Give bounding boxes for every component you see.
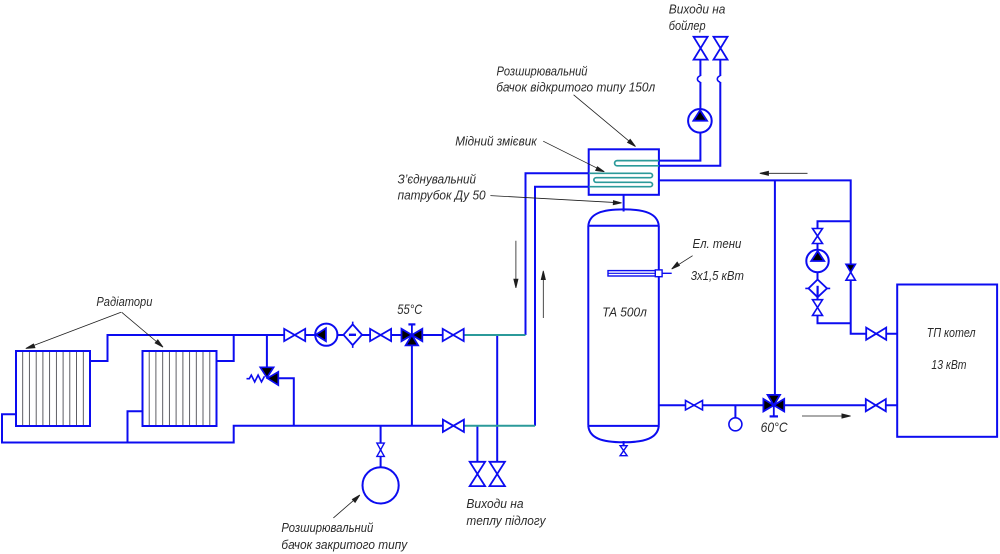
leader Du50: [490, 196, 621, 205]
pump P1: [315, 324, 337, 346]
svg-text:Ел. тени: Ел. тени: [693, 236, 742, 251]
wire teal bottom segment: [464, 425, 535, 427]
valve V1 top pipe left: [284, 329, 305, 341]
wire gauge stem: [734, 405, 736, 418]
leader closed tank: [333, 495, 359, 518]
flow arrow up riser: [541, 271, 545, 318]
svg-text:Мідний змієвик: Мідний змієвик: [455, 133, 537, 148]
svg-text:бачок закритого типу: бачок закритого типу: [281, 537, 408, 552]
wire coil outlet A to boiler output 1: [659, 60, 701, 161]
leader copper coil: [543, 141, 604, 172]
heat accumulator TA 500l: [588, 209, 659, 442]
TA drain valve: [620, 446, 627, 456]
radiator 2: [143, 351, 217, 426]
check valve CV3 on main vertical: [846, 264, 855, 280]
radiator 1: [16, 351, 90, 426]
svg-text:Розширювальний: Розширювальний: [497, 64, 588, 79]
heating element: [608, 270, 672, 277]
svg-text:Радіатори: Радіатори: [96, 294, 152, 309]
closed expansion tank: [363, 467, 399, 503]
valve V2: [370, 329, 391, 341]
wire bypass outlet to bottom pipe: [272, 378, 294, 426]
wire TA outlet to boiler bottom: [659, 404, 898, 406]
svg-text:Розширювальний: Розширювальний: [281, 520, 373, 535]
pipe break symbol 2: [717, 76, 720, 82]
boiler output valve B2: [714, 37, 728, 60]
wire warm floor output 2: [496, 335, 498, 462]
wire riser 1 to coil row1: [526, 173, 589, 335]
svg-text:бойлер: бойлер: [669, 18, 706, 33]
three-way valve 55C: [402, 324, 423, 345]
flow arrow down riser: [514, 241, 518, 288]
wire boiler pump branch: [818, 221, 851, 323]
copper coil lower serpentine: [589, 173, 653, 186]
boiler output valve B1: [694, 37, 708, 60]
wire closed expansion tank drop: [380, 426, 382, 468]
wire bottom return pipe: [2, 414, 464, 442]
wire bypass drop from top pipe: [266, 335, 268, 368]
leader heating element: [672, 256, 693, 269]
valve V4 bottom pipe: [443, 420, 464, 432]
valve V3 before teal top: [443, 329, 464, 341]
valve before boiler bottom: [866, 399, 886, 411]
svg-text:бачок відкритого типу 150л: бачок відкритого типу 150л: [496, 80, 656, 95]
wire teal top segment: [464, 334, 526, 336]
svg-text:ТП котел: ТП котел: [927, 325, 976, 340]
wire radiator 2 top connection: [216, 335, 233, 361]
svg-text:патрубок Ду 50: патрубок Ду 50: [398, 188, 487, 203]
wire radiator 2 bottom inlet: [128, 411, 143, 442]
svg-text:13 кВт: 13 кВт: [931, 357, 966, 372]
wire riser 2 to coil row4: [535, 187, 589, 426]
relief valve with spring: [247, 367, 279, 385]
leader open expansion tank: [574, 95, 636, 147]
wire long pipe from open tank to boiler top: [659, 180, 898, 333]
flow arrow left above long pipe: [760, 171, 808, 175]
svg-text:60°С: 60°С: [761, 419, 789, 435]
check valve CV1: [344, 322, 363, 348]
closed tank valve: [377, 443, 384, 456]
leader radiators: [26, 312, 163, 348]
three-way valve 60C: [763, 395, 784, 417]
warm floor valve WF1: [470, 462, 485, 486]
svg-text:55°С: 55°С: [397, 301, 423, 317]
gauge: [729, 418, 742, 431]
pipe break symbol 1: [697, 76, 700, 82]
pump P3 DHW: [688, 109, 712, 133]
pump P2 boiler circuit: [806, 250, 828, 272]
flow arrow right near 60C: [802, 414, 851, 418]
valve before boiler top: [866, 328, 886, 340]
small valve after TA outlet: [686, 401, 703, 410]
open expansion tank 150l: [589, 149, 659, 195]
copper coil upper loop: [615, 161, 659, 166]
wire TA drain stem: [623, 441, 625, 446]
pump branch valve bottom: [813, 300, 823, 316]
wire coil outlet B to boiler output 2: [659, 60, 720, 166]
check valve CV2 vertical: [805, 280, 830, 298]
svg-text:Виходи на: Виходи на: [669, 1, 726, 16]
wire top supply pipe from radiator 1 to teal segment: [90, 335, 464, 361]
wire 55C valve drop to bottom pipe: [411, 335, 413, 426]
wire connection pipe Du50 tank to TA: [623, 195, 625, 212]
pump branch valve top: [813, 229, 823, 244]
warm floor valve WF2: [490, 462, 505, 486]
svg-text:ТА 500л: ТА 500л: [602, 305, 647, 320]
wire vertical to 60C valve: [774, 180, 776, 405]
svg-text:3х1,5 кВт: 3х1,5 кВт: [691, 268, 744, 283]
svg-text:З’єднувальний: З’єднувальний: [398, 172, 476, 187]
wire warm floor output 1: [476, 426, 478, 462]
boiler TP kotel: [897, 285, 997, 437]
svg-text:Виходи на: Виходи на: [466, 496, 523, 511]
svg-text:теплу підлогу: теплу підлогу: [466, 513, 547, 528]
